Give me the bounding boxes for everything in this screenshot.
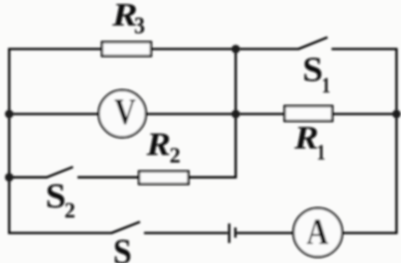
switch S1: [299, 37, 328, 49]
svg-text:2: 2: [170, 142, 181, 167]
svg-text:R: R: [145, 126, 170, 163]
wire: battery to ammeter segment: [237, 232, 294, 234]
svg-text:1: 1: [322, 74, 331, 98]
wire: top middle segment: [151, 48, 299, 50]
svg-text:1: 1: [317, 141, 326, 165]
switch S2: [47, 167, 73, 177]
wire: switch S to battery segment: [144, 232, 228, 234]
svg-text:S: S: [113, 231, 132, 263]
ammeter U2: [293, 208, 342, 257]
svg-text:A: A: [306, 212, 328, 252]
svg-text:3: 3: [134, 12, 145, 38]
node: left-S2 junction: [5, 173, 14, 182]
resistor R2: [139, 171, 188, 184]
wire: S2 to R2 segment: [78, 176, 140, 178]
node: right-middle junction: [392, 110, 401, 119]
svg-text:S: S: [45, 176, 65, 215]
wire: top left segment: [8, 48, 102, 50]
voltmeter U1: [99, 90, 146, 137]
resistor R1: [285, 106, 333, 121]
svg-text:V: V: [114, 92, 136, 133]
resistor R3: [102, 42, 151, 56]
svg-text:S: S: [302, 50, 322, 89]
wire: middle wire left segment: [8, 113, 99, 115]
wire: middle wire centre segment: [146, 113, 285, 115]
wire: left rail: [8, 48, 10, 234]
wire: right rail: [395, 48, 397, 234]
wire: bottom left segment: [8, 232, 112, 234]
node: middle branch junction: [231, 110, 240, 119]
svg-text:R: R: [293, 119, 318, 156]
wire: ammeter to right rail segment: [342, 232, 397, 234]
svg-text:2: 2: [64, 198, 75, 223]
wire: top right segment: [332, 48, 398, 50]
node: top branch junction: [231, 45, 240, 54]
wire: vertical branch with corner to R2: [188, 48, 235, 177]
switch S: [112, 222, 141, 233]
wire: R2 branch left segment: [8, 176, 47, 178]
node: left-middle junction: [5, 110, 14, 119]
battery BT1 short plate: [234, 228, 236, 238]
battery BT1 long plate: [228, 224, 230, 244]
wire: middle wire right segment: [332, 113, 397, 115]
